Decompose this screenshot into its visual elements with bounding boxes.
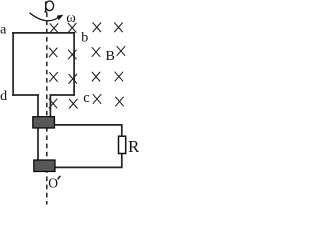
svg-text:B: B [106,49,115,64]
svg-text:a: a [0,23,7,38]
svg-text:d: d [0,89,7,104]
svg-text:c: c [83,90,89,106]
svg-text:ω: ω [66,10,76,26]
svg-text:b: b [81,31,88,46]
svg-text:O: O [48,176,58,191]
svg-text:R: R [128,137,139,156]
